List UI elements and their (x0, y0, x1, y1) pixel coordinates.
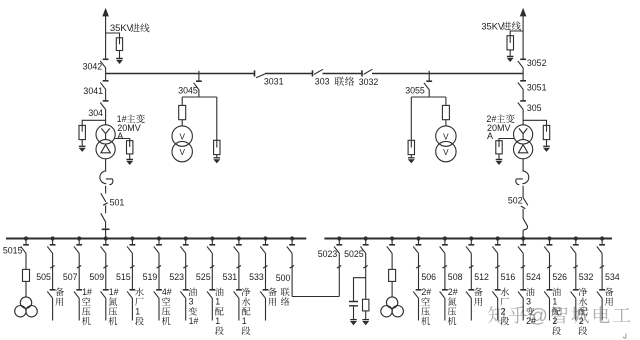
label ['水', '厂', '2', '段'] (feeder 516) (500, 288, 509, 326)
breaker lower (feeder 533) (260, 290, 268, 299)
label ['油', '1', '配', '2', '段'] (feeder 526) (552, 288, 561, 335)
breaker upper (feeder 525) (207, 245, 215, 254)
wire: tap to surge arrester FU1 (106, 33, 120, 44)
wire (52, 299, 54, 321)
transformer T2 2#主变 HV winding (Y) (514, 125, 533, 144)
station transformer (3 windings) at feeder (381, 297, 404, 317)
breaker upper (feeder 532) (571, 245, 579, 254)
breaker 502 (523, 197, 528, 205)
ground (PT group 3045) (213, 158, 220, 164)
wire (265, 299, 267, 321)
breaker lower (feeder 523) (180, 290, 188, 299)
disconnector 3045 (194, 81, 202, 90)
svg-text:1#: 1# (82, 287, 92, 297)
svg-text:509: 509 (89, 272, 104, 282)
wire (522, 186, 524, 198)
svg-text:3041: 3041 (83, 86, 103, 96)
breaker upper (feeder 516) (492, 245, 500, 254)
contact tick (183, 266, 187, 269)
svg-text:5025: 5025 (344, 249, 364, 259)
contact tick (573, 266, 577, 269)
contact tick (495, 266, 499, 269)
wire (105, 299, 107, 321)
arrester (LV side, T2) (496, 141, 502, 154)
wire (522, 239, 524, 245)
svg-text:1#: 1# (189, 316, 199, 326)
svg-text:3032: 3032 (359, 77, 379, 87)
svg-text:508: 508 (448, 272, 463, 282)
voltage transformer PT (3055) winding 2 (436, 141, 456, 161)
voltage transformer PT (3055) winding 1 (436, 126, 456, 146)
node: bus junction feeder 5015 (24, 236, 28, 240)
wire (25, 239, 27, 245)
wire (365, 254, 367, 300)
breaker upper (feeder 533) (260, 245, 268, 254)
ground (LV arrester T2) (496, 159, 503, 165)
wire (105, 110, 107, 125)
label 2#主变 20MVA (486, 114, 514, 141)
svg-text:2#: 2# (448, 287, 458, 297)
ground (HV arrester T2) (543, 146, 550, 152)
wire (444, 254, 446, 290)
node: bus junction feeder 512 (469, 236, 473, 240)
svg-text:3055: 3055 (405, 86, 425, 96)
breaker lower (feeder 512) (466, 290, 474, 299)
breaker upper (feeder 508) (440, 245, 448, 254)
cable termination (T1 LV) (100, 171, 106, 184)
svg-text:2: 2 (579, 316, 584, 326)
breaker lower (feeder 505) (47, 290, 55, 299)
wire (211, 239, 213, 245)
breaker upper (feeder 515) (127, 245, 135, 254)
wire: tap to arrester (neutral side T1) (115, 139, 130, 148)
svg-text:506: 506 (421, 272, 436, 282)
wire (78, 239, 80, 245)
contact tick (50, 266, 54, 269)
contact tick (157, 266, 161, 269)
bus: 10kV bus section II (324, 238, 612, 240)
svg-text:1: 1 (135, 306, 140, 316)
wire: arrester branch (410, 97, 412, 148)
svg-text:516: 516 (501, 272, 516, 282)
label ['1#', '空', '压', '机'] (feeder 507) (82, 287, 92, 325)
wire: branch header (182, 96, 217, 98)
breaker lower (feeder 515) (127, 290, 135, 299)
arrow: incoming line #2 arrowhead (520, 8, 527, 17)
wire (418, 254, 420, 290)
breaker 304 (105, 90, 107, 101)
contact tick (363, 266, 367, 269)
wire (185, 239, 187, 245)
discharge resistor (5025) (363, 299, 369, 311)
wire (549, 299, 551, 321)
ground (LV arrester T1) (126, 159, 133, 165)
node: bus junction feeder 523 (184, 236, 188, 240)
label ['油', '3', '变', '1#'] (feeder 523) (188, 288, 198, 326)
svg-text:2: 2 (501, 306, 506, 316)
wire (158, 254, 160, 290)
svg-text:3045: 3045 (178, 86, 198, 96)
wire (81, 140, 83, 147)
svg-text:500: 500 (276, 273, 291, 283)
svg-text:5015: 5015 (3, 245, 23, 255)
svg-text:2#: 2# (526, 316, 536, 326)
fuse (station transformer ) (389, 269, 396, 281)
ground (arrester FU1) (116, 58, 123, 64)
node: bus junction feeder 524 (521, 236, 525, 240)
wire (238, 299, 240, 321)
arrester (HV side, T2) (543, 125, 549, 139)
label 联络 (tie) (335, 77, 355, 86)
wire (238, 254, 240, 290)
arrester (PT group 3055) (408, 140, 414, 154)
fuse (PT 3045) (179, 105, 186, 119)
node: bus junction feeder unnamed (390, 236, 394, 240)
voltage transformer PT (3045) winding 1 (172, 126, 192, 146)
breaker lower (feeder 531) (234, 290, 242, 299)
label ['水', '厂', '1', '段'] (feeder 515) (135, 288, 144, 326)
ground (HV arrester T1) (79, 146, 86, 152)
wire (549, 254, 551, 290)
wire (391, 254, 393, 270)
label ['联', '络'] (feeder 500) (281, 288, 290, 306)
transformer T1 1#主变 HV winding (Y) (96, 125, 115, 144)
wire: PT branch (181, 97, 183, 105)
disconnector 3051 (522, 74, 524, 81)
contact tick (237, 266, 241, 269)
disconnector 502 lower (523, 218, 528, 230)
contact tick (416, 266, 420, 269)
node: bus junction feeder 5023 (337, 236, 341, 240)
contact tick (337, 266, 341, 269)
svg-text:507: 507 (63, 272, 78, 282)
contact tick (443, 266, 447, 269)
svg-text:35KV: 35KV (110, 23, 134, 33)
voltage transformer PT (3045) winding 2 (172, 141, 192, 161)
svg-text:4#: 4# (162, 287, 172, 297)
wire: arrester branch (216, 97, 218, 148)
svg-text:35KV: 35KV (481, 21, 505, 31)
node: bus junction feeder 509 (104, 236, 108, 240)
wire (522, 299, 524, 321)
breaker upper (feeder 531) (234, 245, 242, 254)
wire (211, 254, 213, 290)
wire (470, 239, 472, 245)
node: bus junction feeder 515 (130, 236, 134, 240)
svg-text:1: 1 (552, 297, 557, 307)
node: bus junction feeder 534 (600, 236, 604, 240)
svg-text:534: 534 (605, 272, 620, 282)
wire: PT branch (445, 97, 447, 105)
node: bus junction feeder 500 (290, 236, 294, 240)
node: bus junction feeder 532 (574, 236, 578, 240)
ground (resistor) (362, 320, 369, 326)
wire (338, 254, 340, 297)
svg-text:1: 1 (215, 297, 220, 307)
svg-text:303: 303 (315, 77, 330, 87)
wire (105, 229, 107, 238)
svg-text:3052: 3052 (527, 58, 547, 68)
wire (497, 239, 499, 245)
breaker lower (feeder 525) (207, 290, 215, 299)
wire (291, 239, 293, 245)
arrester FU2 (35kV incoming #2) (507, 36, 514, 50)
cursor mark bottom right (623, 334, 626, 338)
svg-text:3: 3 (189, 297, 194, 307)
disconnector 3032 (inline) (362, 69, 372, 76)
fuse (station transformer 5015) (23, 269, 30, 281)
wire (216, 155, 218, 158)
ground (arrester FU2) (507, 56, 514, 62)
breaker lower (feeder 534) (597, 290, 605, 299)
svg-text:V: V (179, 148, 185, 157)
wire (522, 110, 524, 125)
svg-text:305: 305 (527, 103, 542, 113)
wire (158, 299, 160, 321)
node: bus junction feeder 508 (443, 236, 447, 240)
svg-text:1: 1 (242, 316, 247, 326)
label 35KV进线 (feeder 2) (481, 21, 520, 31)
wire (444, 299, 446, 321)
breaker lower (feeder 508) (440, 290, 448, 299)
contact tick (521, 206, 525, 209)
wire (78, 254, 80, 290)
contact tick (77, 266, 81, 269)
svg-text:525: 525 (196, 272, 211, 282)
label 1#主变 20MVA (117, 114, 145, 141)
wire (601, 239, 603, 245)
breaker lower (feeder 509) (101, 290, 109, 299)
breaker lower (feeder 526) (544, 290, 552, 299)
node: bus tap for 3055 (428, 71, 430, 81)
breaker upper (feeder 523) (180, 245, 188, 254)
svg-text:515: 515 (116, 272, 131, 282)
arrester (PT group 3045) (214, 140, 220, 154)
wire (549, 239, 551, 245)
arrester (LV side, T1) (127, 141, 133, 154)
svg-text:V: V (179, 132, 185, 141)
label ['净', '水', '配', '1', '段'] (feeder 531) (242, 288, 251, 335)
label ['备', '用'] (feeder 534) (605, 288, 614, 306)
wire (131, 239, 133, 245)
node: bus junction feeder 506 (416, 236, 420, 240)
wire (52, 254, 54, 290)
cable termination (T2 LV) (522, 171, 528, 184)
breaker upper (feeder 505) (47, 245, 55, 254)
bus: 35kV sectionalized bus (106, 73, 523, 75)
node: bus tap for 3045 (198, 71, 200, 81)
wire (131, 299, 133, 321)
label 35KV进线 (feeder 1) (110, 23, 149, 33)
label ['备', '用'] (feeder 505) (55, 288, 64, 306)
svg-text:304: 304 (88, 108, 103, 118)
contact tick (102, 228, 110, 230)
transformer T2 LV winding (delta) (514, 140, 533, 159)
breaker lower (feeder 516) (492, 290, 500, 299)
breaker upper (feeder 5015) (21, 245, 29, 254)
wire (129, 154, 131, 160)
svg-text:3: 3 (526, 297, 531, 307)
wire (418, 299, 420, 321)
arrester (HV side, T1) (79, 125, 85, 139)
wire (105, 222, 107, 229)
breaker upper (feeder 506) (413, 245, 421, 254)
wire (119, 51, 121, 59)
disconnector 3031 (inline) (255, 70, 266, 78)
svg-text:532: 532 (579, 272, 594, 282)
svg-text:A: A (487, 131, 493, 141)
wire (575, 254, 577, 290)
svg-text:512: 512 (474, 272, 489, 282)
label ['油', '1', '配', '1', '段'] (feeder 525) (215, 288, 224, 335)
svg-text:531: 531 (223, 272, 238, 282)
wire (365, 239, 367, 245)
wire (211, 299, 213, 321)
wire: capacitor branch (354, 278, 366, 302)
wire (78, 299, 80, 321)
contact tick (600, 266, 604, 269)
wire (522, 254, 524, 290)
wire (265, 254, 267, 290)
wire (105, 159, 107, 171)
node: bus junction feeder 5025 (364, 236, 368, 240)
breaker upper (feeder None) (387, 245, 395, 254)
svg-text:V: V (443, 148, 449, 157)
wire (522, 209, 524, 218)
wire (410, 155, 412, 158)
svg-text:1: 1 (215, 316, 220, 326)
wire (575, 239, 577, 245)
breaker lower (feeder 519) (154, 290, 162, 299)
breaker upper (feeder 509) (101, 245, 109, 254)
wire: tap to arrester (HV side, T1) (82, 120, 105, 131)
svg-text:519: 519 (143, 272, 158, 282)
label ['油', '3', '变', '2#'] (feeder 524) (526, 288, 536, 326)
contact tick (290, 266, 294, 269)
wire: 35kV incoming feeder #1 riser (105, 14, 107, 59)
ground (capacitor) (350, 320, 357, 326)
wire (105, 68, 107, 73)
label ['4#', '空', '压', '机'] (feeder 519) (162, 287, 172, 325)
svg-text:2: 2 (552, 316, 557, 326)
breaker upper (feeder 524) (518, 245, 526, 254)
wire (198, 90, 200, 97)
contact tick (103, 203, 107, 206)
station transformer (3 windings) at feeder 5015 (15, 297, 38, 317)
wire: tap to surge arrester FU2 (510, 31, 523, 43)
svg-text:533: 533 (249, 272, 264, 282)
wire (185, 299, 187, 321)
wire (105, 239, 107, 245)
fuse (PT 3055) (442, 105, 449, 119)
wire (185, 254, 187, 290)
arrester FU1 (35kV incoming #1) (116, 38, 122, 51)
wire: tap to arrester (neutral side T2) (499, 139, 514, 148)
wire (522, 159, 524, 171)
breaker lower (feeder 506) (413, 290, 421, 299)
label ['1#', '氮', '压', '机'] (feeder 509) (109, 287, 119, 325)
svg-text:3051: 3051 (527, 83, 547, 93)
node: bus junction feeder 507 (77, 236, 81, 240)
contact tick (547, 266, 551, 269)
breaker lower (feeder 532) (571, 290, 579, 299)
disconnector 303 (bus tie) (313, 69, 323, 76)
node: bus junction feeder 525 (210, 236, 214, 240)
svg-text:3042: 3042 (83, 62, 103, 72)
disconnector 3041 (105, 74, 107, 81)
wire (444, 239, 446, 245)
wire (365, 311, 367, 320)
breaker upper (feeder 507) (74, 245, 82, 254)
node: bus junction feeder 526 (547, 236, 551, 240)
wire (498, 154, 500, 160)
wire: tap to arrester (HV side, T2) (523, 120, 546, 131)
wire (181, 120, 183, 126)
wire (445, 120, 447, 126)
wire (497, 299, 499, 321)
arrow: incoming line #1 arrowhead (102, 8, 109, 17)
label ['备', '用'] (feeder 512) (474, 288, 483, 306)
breaker 501 (101, 193, 106, 202)
wire (131, 254, 133, 290)
wire (391, 239, 393, 245)
svg-text:1#: 1# (109, 287, 119, 297)
breaker 305 (522, 90, 524, 101)
label ['2#', '氮', '压', '机'] (feeder 508) (448, 287, 458, 325)
wire (575, 299, 577, 321)
wire (291, 254, 293, 297)
breaker lower (feeder 507) (74, 290, 82, 299)
wire (158, 239, 160, 245)
wire (353, 306, 355, 320)
disconnector 501 lower (101, 213, 106, 222)
breaker upper (feeder 512) (466, 245, 474, 254)
contact tick (103, 266, 107, 269)
svg-text:2#: 2# (421, 287, 431, 297)
svg-text:505: 505 (36, 272, 51, 282)
wire (509, 50, 511, 57)
wire (418, 239, 420, 245)
breaker upper (feeder 5025) (360, 245, 368, 254)
wire (52, 239, 54, 245)
contact tick (130, 266, 134, 269)
svg-text:V: V (443, 132, 449, 141)
wire (546, 140, 548, 147)
disconnector 3055 (424, 81, 432, 90)
svg-text:501: 501 (110, 198, 125, 208)
disconnector 3042 (100, 59, 108, 68)
contact tick (469, 266, 473, 269)
node: bus junction feeder 519 (157, 236, 161, 240)
wire (497, 254, 499, 290)
label ['净', '水', '配', '2', '段'] (feeder 532) (578, 288, 587, 335)
wire (338, 239, 340, 245)
breaker upper (feeder 534) (597, 245, 605, 254)
wire (601, 254, 603, 290)
wire (105, 206, 107, 214)
wire (105, 186, 107, 194)
wire: bus tie link 500-5023 (292, 296, 339, 298)
wire: branch header (411, 96, 446, 98)
svg-text:502: 502 (508, 196, 523, 206)
transformer T1 LV winding (delta) (96, 140, 115, 159)
node: bus junction feeder 531 (237, 236, 241, 240)
wire (391, 281, 393, 297)
wire (265, 239, 267, 245)
wire (25, 281, 27, 297)
wire (470, 254, 472, 290)
wire (601, 299, 603, 321)
